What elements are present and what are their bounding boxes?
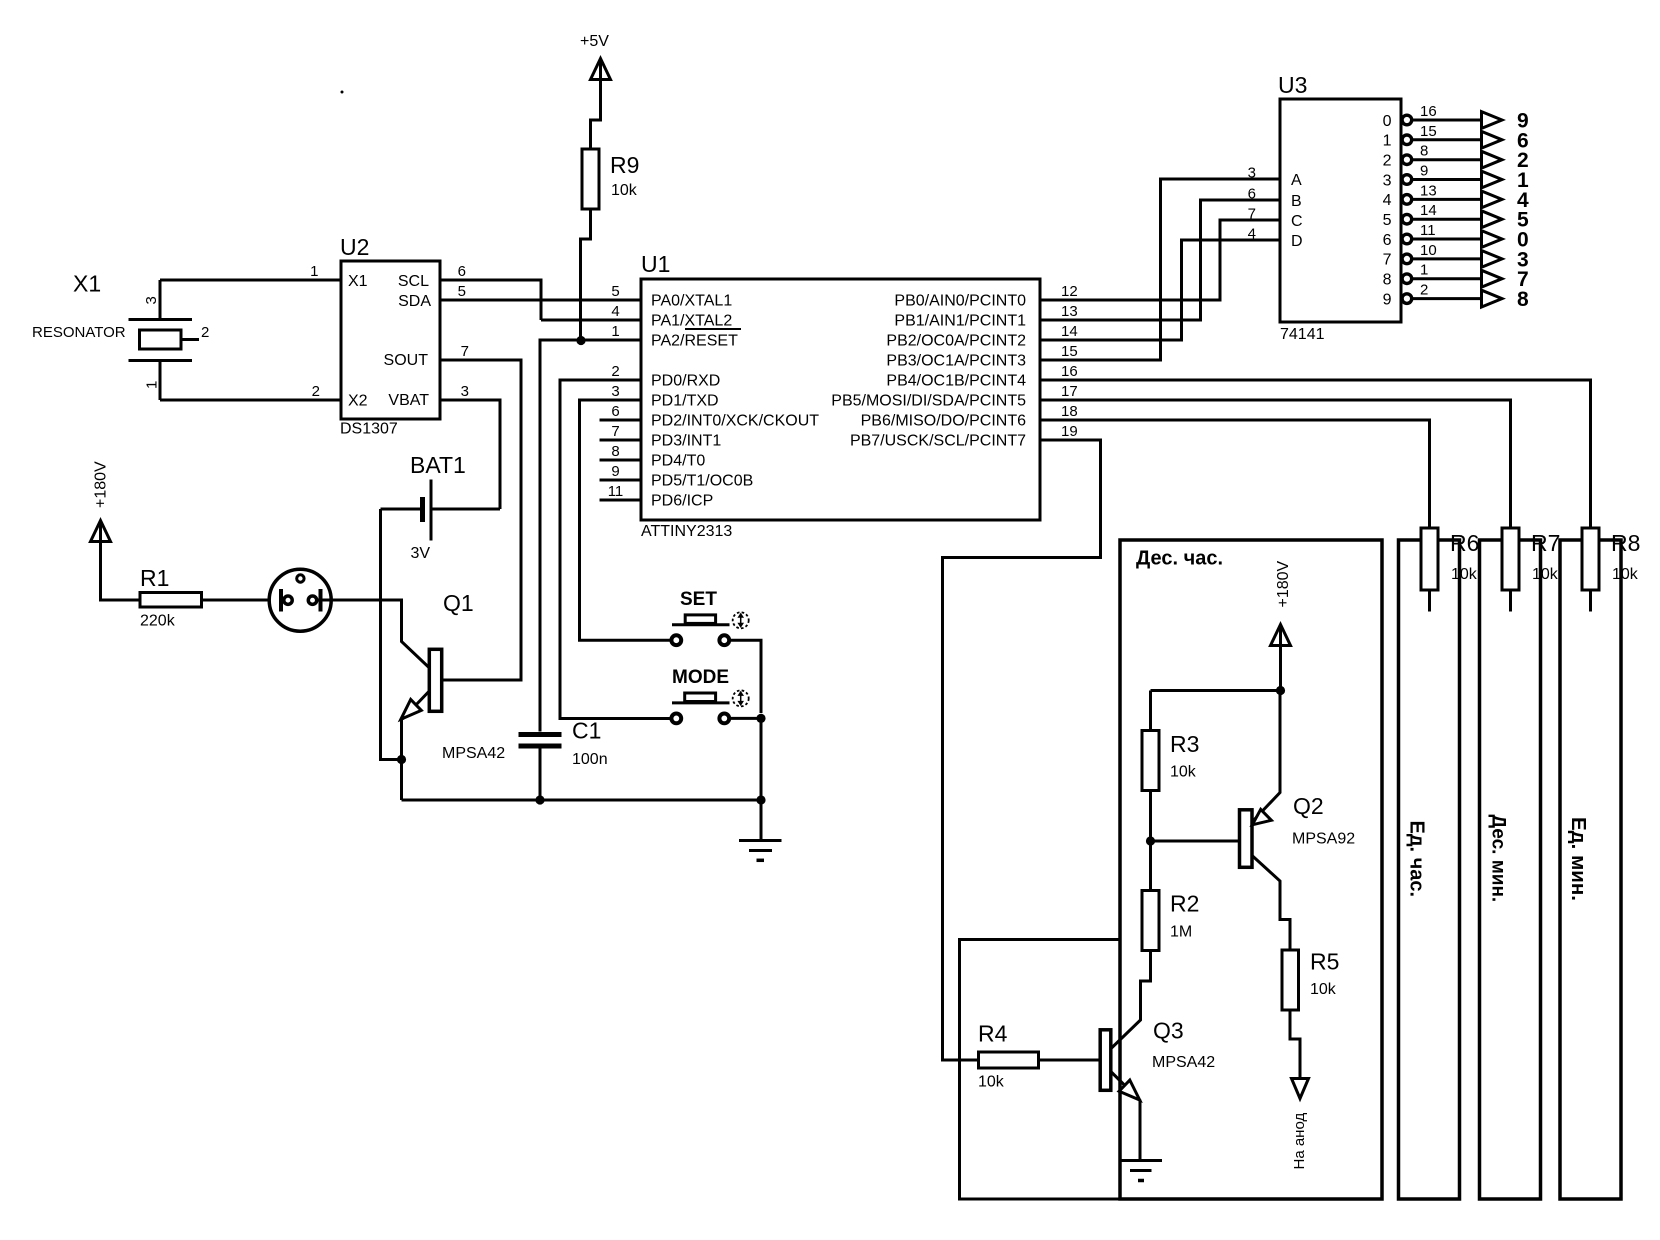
resistor R8 body [1582,528,1599,590]
svg-text:SET: SET [680,589,717,610]
arrow to digit 0 [1482,231,1503,248]
wire PA1 from SCL jog [541,319,641,322]
wire PD0 to MODE button [560,380,670,719]
wire base node to Q2 [1151,840,1241,843]
U3 output bubble pin 3 [1402,175,1412,185]
nixie tube box Ед. час. [1399,540,1460,1199]
ground rail wire [402,799,762,802]
svg-text:11: 11 [1420,222,1436,239]
wire PB2 (pin14) to 74141 D [1040,240,1280,340]
svg-text:10k: 10k [978,1074,1005,1091]
wire SOUT (U2 pin7) to Q1 base [440,360,521,680]
crystal X1 bottom plate [129,359,193,362]
svg-text:5: 5 [1383,212,1392,229]
wire R8 anode lead [1589,590,1592,612]
svg-text:MPSA92: MPSA92 [1292,831,1355,848]
wire R5 to anode arrow [1290,1010,1300,1082]
svg-text:5: 5 [458,283,466,300]
svg-text:3: 3 [611,383,619,400]
svg-text:R5: R5 [1310,949,1339,975]
svg-text:PD4/T0: PD4/T0 [651,453,705,470]
wire BAT1 minus lead [381,508,421,511]
svg-text:16: 16 [1061,363,1078,380]
svg-text:9: 9 [1420,163,1428,180]
nixie tube box Дес. час. [1120,540,1382,1199]
svg-text:4: 4 [1248,226,1256,243]
Q1 emitter arrow [401,700,421,720]
svg-text:7: 7 [1248,206,1256,223]
svg-text:Ед. мин.: Ед. мин. [1567,817,1590,901]
svg-text:PB5/MOSI/DI/SDA/PCINT5: PB5/MOSI/DI/SDA/PCINT5 [831,393,1026,410]
svg-text:3V: 3V [411,545,431,562]
wire R3 to base node [1149,791,1152,842]
svg-text:A: A [1291,172,1302,189]
svg-text:+180V: +180V [93,461,110,508]
svg-text:10k: 10k [1532,566,1559,583]
svg-text:SDA: SDA [398,293,431,310]
Q2 emitter to +180V [1252,691,1280,823]
wire SET to MODE junction [731,640,761,713]
svg-text:U2: U2 [340,234,369,260]
svg-text:1: 1 [611,323,619,340]
wire U3 output 0 [1412,119,1482,122]
svg-text:14: 14 [1061,323,1078,340]
svg-text:Дес. мин.: Дес. мин. [1488,815,1509,903]
svg-text:10k: 10k [1310,981,1337,998]
arrow to digit 9 [1482,112,1503,129]
arrow to digit 8 [1482,290,1503,307]
svg-text:PB1/AIN1/PCINT1: PB1/AIN1/PCINT1 [894,313,1026,330]
svg-text:2: 2 [1420,282,1428,299]
wire U3 output 4 [1412,198,1482,201]
button MODE bar [672,701,730,704]
Q1 emitter [402,691,430,800]
svg-text:15: 15 [1061,343,1078,360]
node junction rail/ground [756,795,765,804]
svg-text:BAT1: BAT1 [410,452,466,478]
nixie tube box Ед. мин. [1560,540,1621,1199]
svg-text:DS1307: DS1307 [340,421,398,438]
button SET left pin [671,635,681,645]
U1 pin stubs PD2-PD6 [600,419,642,422]
svg-text:10k: 10k [611,182,638,199]
resistor R1 body [140,593,202,608]
wire PB4 (pin16) to R8 [1040,380,1591,528]
power +180V arrow (tube) [1271,625,1291,646]
resistor R9 body [582,149,599,209]
svg-text:1: 1 [144,381,161,389]
svg-text:2: 2 [1383,153,1392,170]
crystal X1 body [140,330,182,349]
button MODE right pin [719,714,729,724]
wire R2 top lead [1149,841,1152,891]
capacitor C1 top plate [519,732,562,737]
resistor R7 body [1502,528,1519,590]
svg-text:2: 2 [201,324,209,341]
arrow to digit 2 [1482,151,1503,168]
arrow to digit 7 [1482,270,1503,287]
node junction C1/rail [535,795,544,804]
button SET right pin [719,635,729,645]
svg-text:PB4/OC1B/PCINT4: PB4/OC1B/PCINT4 [886,373,1026,390]
svg-text:0: 0 [1383,113,1392,130]
U3 output bubble pin 5 [1402,214,1412,224]
svg-text:PB7/USCK/SCL/PCINT7: PB7/USCK/SCL/PCINT7 [850,433,1026,450]
svg-text:PB2/OC0A/PCINT2: PB2/OC0A/PCINT2 [886,333,1026,350]
wire PB7 (pin19) to R4 [943,440,1101,1060]
button SET direction symbol [733,612,749,628]
wire PB6 (pin18) to R6 [1040,420,1430,528]
svg-text:Q1: Q1 [443,590,474,616]
node junction Q1 emitter [397,755,406,764]
svg-text:PD1/TXD: PD1/TXD [651,393,719,410]
svg-text:R4: R4 [978,1021,1008,1047]
svg-text:1: 1 [310,263,318,280]
arrow to digit 5 [1482,211,1503,228]
wire X1 pin1 to U2 pin2 [160,399,341,402]
resistor R6 body [1421,528,1438,590]
U3 output bubble pin 7 [1402,254,1412,264]
svg-text:10k: 10k [1451,566,1478,583]
U3 output bubble pin 2 [1402,155,1412,165]
connector key circle [297,575,304,582]
wire PB3 (pin15) to 74141 A [1040,179,1280,360]
connector left pin [279,589,283,612]
anode arrow (На анод) [1292,1079,1309,1099]
Q3 emitter to ground [1111,1072,1140,1161]
wire U3 output 3 [1412,178,1482,181]
resistor R4 body [979,1052,1039,1068]
svg-text:19: 19 [1061,423,1078,440]
wire U3 output 9 [1412,297,1482,300]
wire U3 output 2 [1412,158,1482,161]
wire resonator top lead [159,280,162,318]
svg-text:X2: X2 [348,393,368,410]
U3 output bubble pin 0 [1402,115,1412,125]
svg-text:9: 9 [1383,291,1392,308]
svg-text:8: 8 [1517,288,1529,311]
wire resonator bottom lead [159,362,162,400]
svg-text:R1: R1 [140,565,169,591]
resistor R5 body [1282,950,1299,1010]
svg-text:7: 7 [461,343,469,360]
svg-text:11: 11 [608,483,624,500]
svg-text:6: 6 [458,263,466,280]
node junction +180V [1276,686,1285,695]
U3 output bubble pin 6 [1402,234,1412,244]
svg-text:6: 6 [611,403,619,420]
svg-text:8: 8 [1420,143,1428,160]
svg-text:R3: R3 [1170,731,1199,757]
transistor Q1 base bar [429,649,441,711]
wire R4 to Q3 base [1039,1059,1101,1062]
wire R1 to connector [202,599,284,602]
battery BAT1 long plate [430,480,433,541]
svg-text:SCL: SCL [398,273,429,290]
wire U3 output 7 [1412,257,1482,260]
button MODE plunger [685,693,716,702]
button SET plunger [685,615,715,624]
node junction R9/PA2 [576,336,585,345]
node junction R3/R2/Q2 base [1146,836,1155,845]
svg-text:7: 7 [611,423,619,440]
svg-text:10k: 10k [1170,764,1197,781]
svg-text:ATTINY2313: ATTINY2313 [641,523,732,540]
tube cathode wire around box [960,940,1121,1200]
wire VBAT (U2 pin3) to BAT1 [440,400,500,509]
wire PB1 (pin13) to 74141 B [1040,200,1280,320]
wire PB5 (pin17) to R7 [1040,400,1511,528]
battery BAT1 short plate [420,497,425,522]
svg-text:VBAT: VBAT [388,392,429,409]
U1 RESET overline [685,328,741,330]
button SET bar [672,623,730,626]
svg-text:C1: C1 [572,718,601,744]
wire R6 anode lead [1428,590,1431,612]
capacitor C1 bottom plate [519,744,562,749]
nixie tube box Дес. мин. [1480,540,1541,1199]
svg-text:PA0/XTAL1: PA0/XTAL1 [651,293,732,310]
U3 output bubble pin 9 [1402,294,1412,304]
svg-text:PD6/ICP: PD6/ICP [651,493,713,510]
svg-text:5: 5 [611,283,619,300]
connector (lamp socket) outline [269,569,331,631]
wire BAT1 to emitter node [381,509,402,760]
wire R2 to Q3 collector [1111,951,1151,1049]
svg-text:4: 4 [611,303,619,320]
wire R3 top lead [1149,691,1152,731]
wire U3 output 1 [1412,138,1482,141]
wire SDA (U2 pin5) to U1 PA0 [440,299,641,302]
svg-text:PD5/T1/OC0B: PD5/T1/OC0B [651,473,753,490]
transistor Q2 base bar [1240,810,1253,868]
Q3 emitter arrow [1119,1080,1140,1100]
Q2 emitter arrow [1252,809,1271,824]
arrow to digit 3 [1482,251,1503,268]
node junction MODE/SET [756,714,765,723]
power +180V arrow (left) [91,521,111,542]
svg-text:3: 3 [1383,172,1392,189]
svg-text:X1: X1 [73,271,101,297]
svg-text:C: C [1291,213,1303,230]
svg-text:PD3/INT1: PD3/INT1 [651,433,721,450]
U3 output bubble pin 1 [1402,135,1412,145]
arrow to digit 4 [1482,191,1503,208]
svg-text:R9: R9 [610,152,639,178]
wire PA2/RESET to C1 [540,340,641,732]
svg-text:R8: R8 [1611,530,1640,556]
wire connector to Q1 collector [318,600,430,668]
svg-text:R6: R6 [1450,530,1479,556]
svg-text:U1: U1 [641,251,670,277]
svg-text:U3: U3 [1278,72,1307,98]
ground symbol (Q3) [1120,1159,1163,1162]
button MODE direction symbol [733,690,749,706]
arrow to digit 1 [1482,171,1503,188]
wire PB0 (pin12) to 74141 C [1040,220,1280,300]
wire U3 output 5 [1412,218,1482,221]
svg-text:6: 6 [1248,186,1256,203]
wire PD1 to SET button [580,400,671,640]
svg-text:R7: R7 [1531,530,1560,556]
svg-text:1: 1 [1420,262,1428,279]
svg-text:PB3/OC1A/PCINT3: PB3/OC1A/PCINT3 [886,353,1026,370]
wire MODE to ground [731,718,761,800]
wire +180V to R3 [1151,689,1281,692]
svg-text:+5V: +5V [580,33,609,50]
svg-text:18: 18 [1061,403,1078,420]
IC U2 DS1307 body [341,261,440,419]
svg-text:PB0/AIN0/PCINT0: PB0/AIN0/PCINT0 [894,293,1026,310]
ground symbol (buttons) [760,800,763,840]
svg-text:Q2: Q2 [1293,793,1324,819]
svg-text:B: B [1291,193,1302,210]
svg-text:3: 3 [143,296,160,304]
svg-text:SOUT: SOUT [384,352,429,369]
U3 output bubble pin 4 [1402,195,1412,205]
crystal X1 pin2 stub [181,338,199,341]
svg-text:MPSA42: MPSA42 [442,745,505,762]
svg-text:15: 15 [1420,123,1437,140]
svg-text:14: 14 [1420,202,1437,219]
svg-text:100n: 100n [572,751,608,768]
arrow to digit 6 [1482,131,1503,148]
svg-text:PD0/RXD: PD0/RXD [651,373,720,390]
svg-text:7: 7 [1383,252,1392,269]
wire C1 to ground rail [539,749,542,801]
svg-text:MPSA42: MPSA42 [1152,1054,1215,1071]
svg-text:PA1/XTAL2: PA1/XTAL2 [651,313,732,330]
svg-text:9: 9 [611,463,619,480]
resistor R3 body [1142,731,1159,791]
svg-text:+180V: +180V [1275,560,1292,607]
svg-text:13: 13 [1420,182,1437,199]
svg-text:12: 12 [1061,283,1078,300]
connector right pin [308,596,316,604]
svg-text:Q3: Q3 [1153,1018,1184,1044]
resistor R2 body [1142,891,1159,951]
svg-text:R2: R2 [1170,891,1199,917]
svg-text:8: 8 [1383,272,1392,289]
Q2 collector to R5 [1252,856,1290,951]
wire SCL (U2 pin6) to U1 PA1 [440,280,541,320]
wire U3 output 8 [1412,277,1482,280]
svg-text:PA2/RESET: PA2/RESET [651,333,738,350]
svg-text:8: 8 [611,443,619,460]
svg-text:10k: 10k [1612,566,1639,583]
IC U1 ATTINY2313 body [641,279,1040,520]
svg-text:17: 17 [1061,383,1078,400]
svg-text:2: 2 [611,363,619,380]
power +5V arrow [591,59,611,80]
svg-text:Ед. час.: Ед. час. [1406,821,1428,898]
svg-text:X1: X1 [348,273,368,290]
svg-text:1M: 1M [1170,924,1192,941]
svg-text:MODE: MODE [672,667,729,688]
svg-text:1: 1 [1383,133,1392,150]
svg-text:6: 6 [1383,232,1392,249]
svg-text:Дес. час.: Дес. час. [1136,548,1223,570]
wire R7 anode lead [1509,590,1512,612]
svg-text:3: 3 [1248,165,1256,182]
wire R9 to PA2 node [581,209,591,340]
button MODE left pin [671,714,681,724]
IC U3 74141 body [1280,99,1401,322]
stray dot artifact [341,91,344,94]
wire U3 output 6 [1412,238,1482,241]
U3 output bubble pin 8 [1402,274,1412,284]
wire BAT1 plus to VBAT [433,508,501,511]
svg-text:13: 13 [1061,303,1078,320]
svg-text:10: 10 [1420,242,1437,259]
crystal X1 top plate [129,318,193,321]
svg-text:На анод: На анод [1291,1113,1308,1170]
transistor Q3 base bar [1100,1030,1111,1091]
svg-text:16: 16 [1420,103,1437,120]
svg-text:74141: 74141 [1280,326,1325,343]
svg-text:4: 4 [1383,192,1392,209]
svg-text:3: 3 [461,383,469,400]
svg-text:2: 2 [312,383,320,400]
wire X1 pin3 to U2 pin1 [160,279,341,282]
svg-text:D: D [1291,233,1303,250]
svg-text:PD2/INT0/XCK/CKOUT: PD2/INT0/XCK/CKOUT [651,413,819,430]
svg-text:220k: 220k [140,613,176,630]
svg-text:PB6/MISO/DO/PCINT6: PB6/MISO/DO/PCINT6 [861,413,1026,430]
svg-text:RESONATOR: RESONATOR [32,324,126,341]
